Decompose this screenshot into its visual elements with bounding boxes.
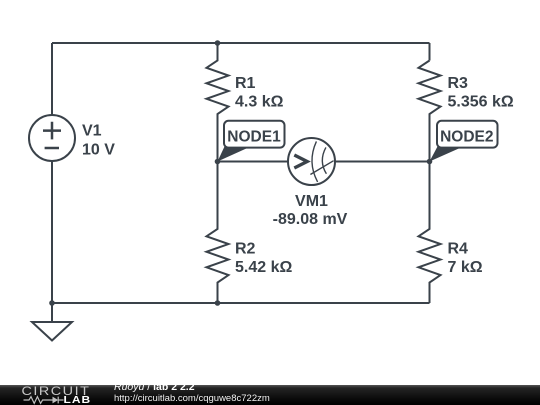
svg-text:VM1: VM1 [295,193,328,210]
junction node NODE1 [215,159,221,165]
label V1 value 10 V [82,123,115,159]
label R4 value 7 kOhm [448,241,483,277]
label R2 value 5.42 kOhm [235,241,292,277]
svg-text:V1: V1 [82,123,102,140]
footer bar [0,385,540,405]
wire voltmeter right terminal to NODE2 [335,161,430,163]
node NODE2 flag [430,121,498,162]
wire left vertical from top net to V1 positive terminal [51,43,53,115]
wire V1 negative terminal to bottom net [51,161,53,303]
svg-text:-89.08 mV: -89.08 mV [273,211,348,228]
wire top horizontal net [52,42,430,44]
resistor R2 [207,162,229,304]
svg-text:5.356 kΩ: 5.356 kΩ [448,94,514,111]
CircuitLab logo resistor-diode squiggle [24,397,64,404]
svg-text:R2: R2 [235,241,256,258]
footer title line [114,382,195,392]
label R1 value 4.3 kOhm [235,75,284,111]
svg-text:R4: R4 [448,241,469,258]
svg-text:10 V: 10 V [82,141,115,158]
footer url line [114,394,270,403]
svg-text:NODE1: NODE1 [227,129,281,146]
svg-text:5.42 kΩ: 5.42 kΩ [235,259,292,276]
node NODE1 flag [218,121,285,162]
junction dot bottom net at ground [49,300,55,306]
wire bottom horizontal net (ground net) [52,302,430,304]
svg-text:NODE2: NODE2 [440,129,493,146]
ground symbol [32,303,72,341]
svg-text:4.3 kΩ: 4.3 kΩ [235,94,284,111]
label VM1 value -89.08 mV [273,193,348,228]
voltage source V1 [29,115,75,161]
svg-text:R3: R3 [448,75,469,92]
wire NODE1 to voltmeter left terminal [218,161,289,163]
voltmeter VM1 [288,138,335,185]
resistor R3 [419,61,441,162]
resistor R4 [419,162,441,304]
junction dot top net at R1 [215,40,221,46]
label R3 value 5.356 kOhm [448,75,514,111]
wire right vertical from top net to R3 [429,43,431,61]
resistor R1 [207,43,229,162]
junction node NODE2 [427,159,433,165]
svg-text:7 kΩ: 7 kΩ [448,259,483,276]
svg-text:LAB: LAB [64,395,92,405]
svg-text:R1: R1 [235,75,256,92]
junction dot bottom net at R2 [215,300,221,306]
